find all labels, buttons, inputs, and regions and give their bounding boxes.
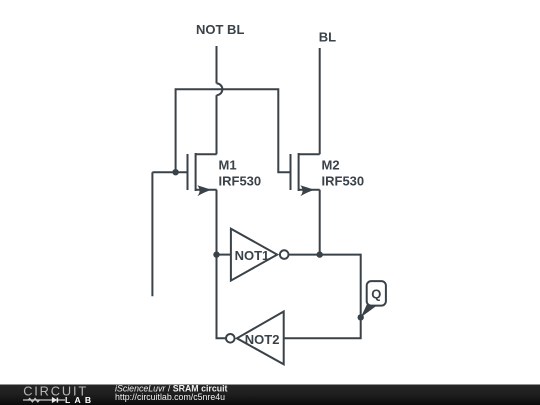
svg-text:LAB: LAB: [65, 395, 95, 405]
wire M1 gate horizontal: [152, 171, 186, 173]
wire NOT BL vertical (top segment above hop): [216, 46, 218, 83]
transistor M2 drain lead: [299, 153, 320, 155]
op-amp NOT1 triangle: [231, 229, 277, 281]
wire hop over word-line rail: [217, 83, 223, 95]
junction dot Q flag attach point: [358, 314, 364, 320]
wire M1 source down to NOT1 input node: [216, 190, 218, 255]
svg-text:IRF530: IRF530: [322, 173, 365, 188]
svg-text:NOT2: NOT2: [245, 332, 280, 347]
footer bar: [0, 385, 540, 405]
op-amp NOT2 triangle: [237, 312, 284, 365]
transistor M1 source arrow: [197, 185, 211, 196]
svg-text:Q: Q: [371, 287, 381, 302]
svg-text:M2: M2: [322, 157, 340, 172]
op-amp NOT2 output bubble: [226, 334, 235, 343]
flag Q rounded box: [367, 281, 386, 306]
logo wire line: [23, 399, 65, 401]
wire BL vertical to M2 drain: [319, 48, 321, 154]
svg-text:BL: BL: [319, 30, 336, 45]
flag Q pointer wedge: [361, 303, 377, 318]
svg-text:IRF530: IRF530: [219, 173, 262, 188]
transistor M1 channel bar: [195, 153, 197, 191]
junction dot M2 source joins Q node: [317, 251, 323, 257]
svg-text:NOT1: NOT1: [235, 248, 270, 263]
wire NOT2 output to left column up to NOT1 input: [217, 255, 227, 339]
svg-text:NOT BL: NOT BL: [196, 22, 244, 37]
junction dot at M1 gate: [172, 169, 178, 175]
transistor M1 drain lead: [196, 153, 217, 155]
wire left open stub vertical: [151, 172, 153, 296]
transistor M1 gate bar: [187, 154, 189, 190]
transistor M1 source lead: [196, 189, 217, 191]
transistor M2 source arrow: [300, 185, 314, 196]
wire word-line rail connecting M1 gate to M2 gate: [176, 89, 290, 172]
logo diode bar: [56, 398, 58, 403]
wire NOT1 input horizontal: [217, 254, 231, 256]
junction dot NOT1 input node: [213, 251, 219, 257]
svg-text:M1: M1: [219, 157, 237, 172]
wire NOT BL vertical (hop to M1 drain): [216, 95, 218, 154]
logo diode triangle: [52, 397, 57, 403]
transistor M2 channel bar: [298, 153, 300, 191]
svg-text:http://circuitlab.com/c5nre4u: http://circuitlab.com/c5nre4u: [115, 392, 225, 402]
wire M2 source down to Q node: [319, 190, 321, 255]
transistor M2 gate bar: [290, 154, 292, 190]
logo resistor zigzag: [28, 398, 40, 402]
transistor M2 source lead: [299, 189, 320, 191]
wire NOT1 output to right column: [284, 255, 361, 339]
op-amp NOT1 output bubble: [280, 250, 289, 259]
